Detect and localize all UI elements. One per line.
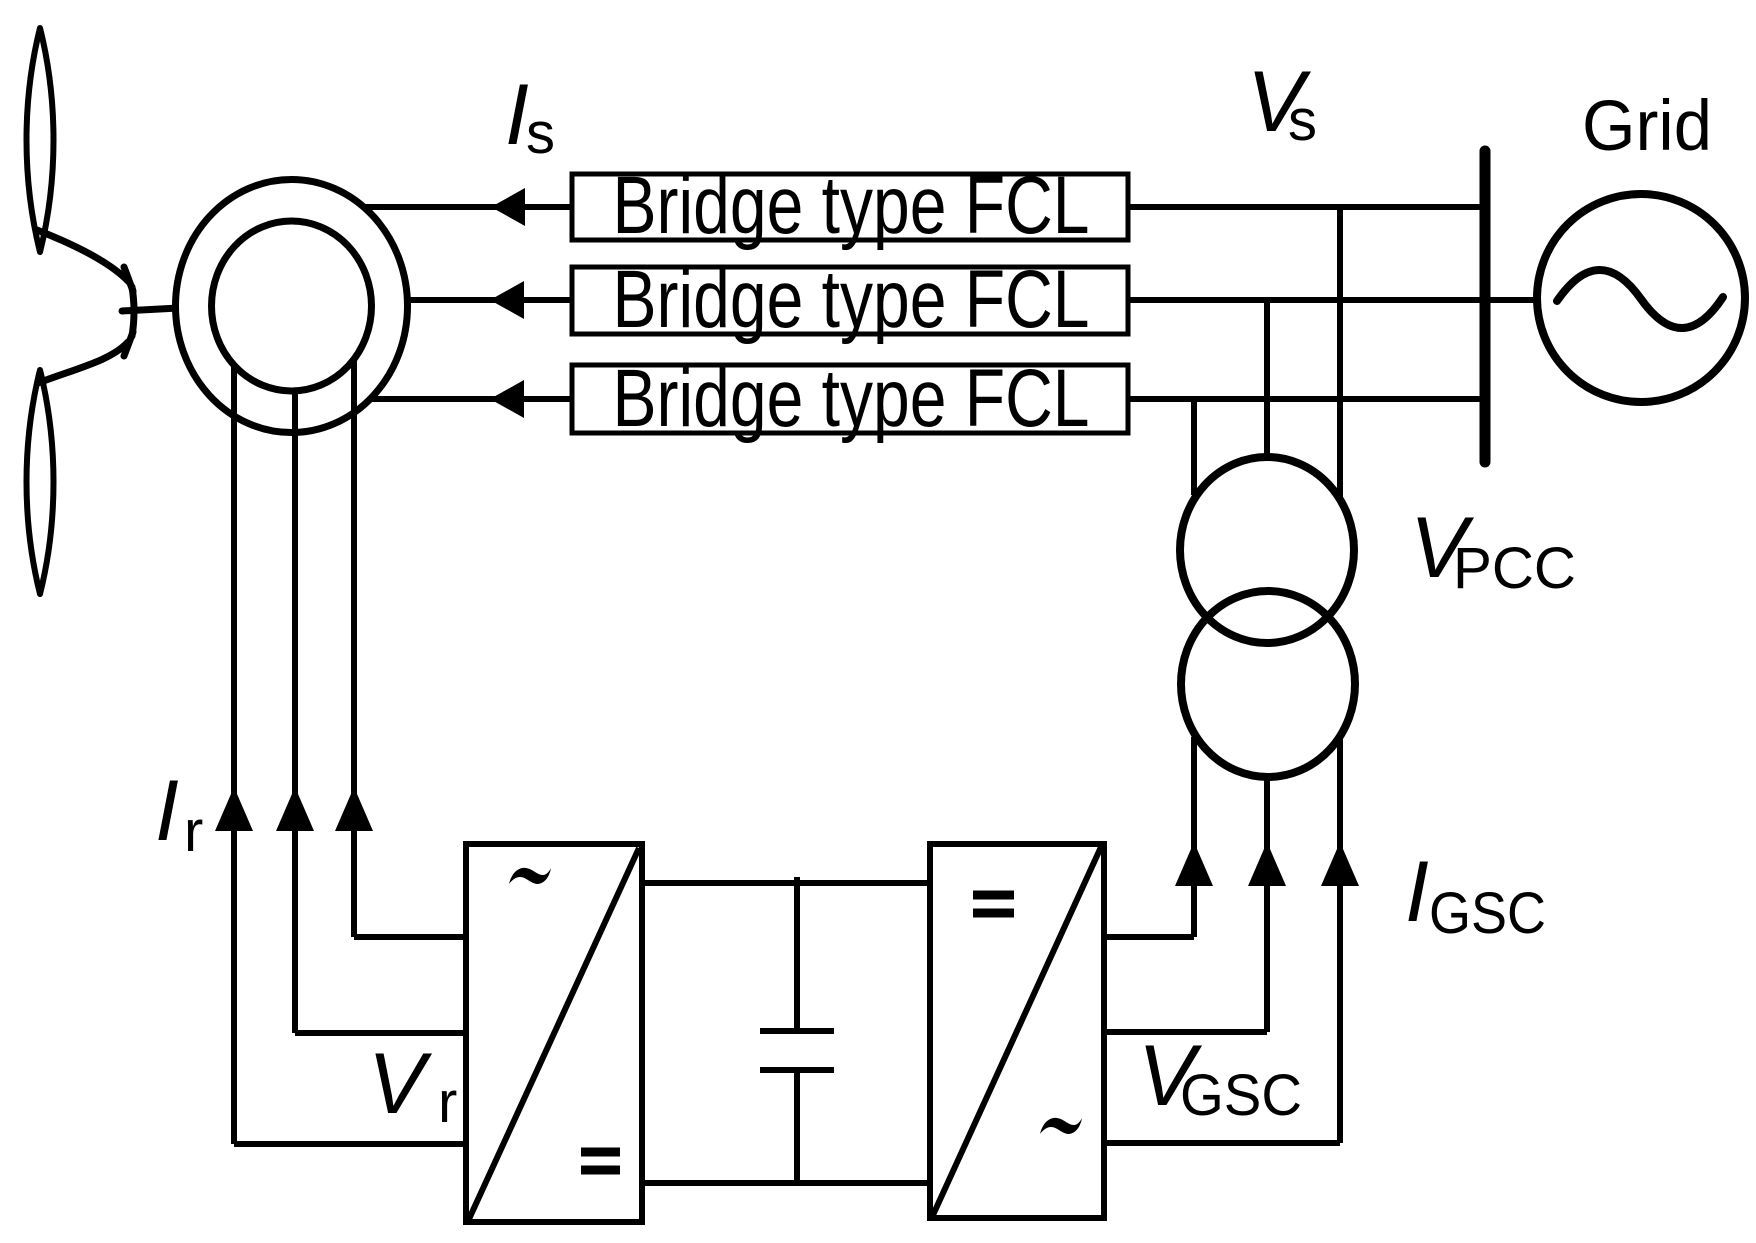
wind turbine blade bottom — [27, 370, 54, 594]
rotor side converter box — [466, 844, 642, 1222]
dc link bottom rail — [642, 1180, 930, 1186]
svg-text:Grid: Grid — [1582, 87, 1712, 166]
svg-text:I: I — [1405, 844, 1429, 940]
stator wire b — [407, 297, 572, 303]
RSC wire b horizontal — [295, 1030, 466, 1036]
GSC dc symbol — [973, 895, 1014, 913]
svg-text:Bridge type FCL: Bridge type FCL — [613, 160, 1090, 251]
vertical line phase c to transformer — [1191, 399, 1197, 495]
vertical line phase a to transformer — [1337, 207, 1343, 497]
GSC ac symbol — [1040, 1118, 1082, 1134]
FCL box 1 — [572, 174, 1128, 240]
transformer primary circle — [1180, 457, 1354, 643]
grid sine wave — [1557, 270, 1723, 328]
generator outer circle — [176, 180, 408, 433]
RSC ac symbol — [509, 868, 551, 884]
stator wire a — [366, 204, 572, 210]
wind turbine hub nose cone lower curve — [38, 342, 128, 383]
generator inner circle — [212, 221, 372, 391]
wind turbine hub nose cone upper curve — [37, 230, 129, 282]
rotor wire b vertical — [292, 391, 298, 1033]
svg-text:Bridge type FCL: Bridge type FCL — [613, 353, 1090, 444]
hub lower joint tick — [124, 332, 133, 356]
arrow Ir b — [276, 787, 314, 831]
rotor wire c vertical — [231, 365, 237, 1144]
GSC wire a horizontal — [1104, 934, 1194, 940]
GSC wire a vertical — [1191, 737, 1197, 937]
arrow Is a — [491, 188, 525, 226]
grid side converter box — [930, 844, 1104, 1218]
arrow Igsc c — [1321, 842, 1359, 886]
arrow Igsc a — [1175, 842, 1213, 886]
FCL box 2 — [572, 267, 1128, 334]
GSC wire c horizontal — [1104, 1140, 1340, 1146]
wire FCL2 to bus to grid — [1128, 297, 1538, 303]
svg-text:Bridge type FCL: Bridge type FCL — [613, 254, 1090, 345]
dc link top rail — [642, 880, 930, 886]
GSC wire b horizontal — [1104, 1029, 1267, 1035]
dc link capacitor — [760, 877, 834, 1183]
arrow Ir a — [335, 787, 373, 831]
vertical line phase b to transformer — [1264, 300, 1270, 459]
wire FCL1 to bus — [1128, 204, 1485, 210]
svg-text:V: V — [368, 1036, 433, 1132]
stator wire c — [371, 396, 572, 402]
wind turbine blade top — [27, 28, 54, 252]
wire FCL3 to bus — [1128, 396, 1485, 402]
svg-text:s: s — [526, 101, 555, 166]
transformer secondary circle — [1181, 591, 1355, 777]
svg-text:r: r — [438, 1070, 457, 1135]
arrow Igsc b — [1248, 842, 1286, 886]
arrow Is b — [490, 281, 524, 319]
GSC wire c vertical — [1337, 739, 1343, 1143]
svg-text:I: I — [155, 763, 179, 859]
bus bar — [1480, 151, 1491, 462]
grid source circle — [1537, 194, 1745, 402]
GSC diagonal — [933, 847, 1101, 1215]
svg-text:r: r — [184, 799, 203, 864]
RSC diagonal — [469, 848, 639, 1219]
FCL box 3 — [572, 365, 1128, 433]
RSC dc symbol — [581, 1152, 620, 1170]
RSC wire a horizontal — [354, 934, 466, 940]
svg-text:GSC: GSC — [1429, 881, 1546, 946]
rotor wire a vertical — [351, 359, 357, 937]
svg-text:s: s — [1288, 88, 1317, 153]
hub upper joint tick — [124, 267, 133, 291]
svg-text:PCC: PCC — [1453, 536, 1576, 601]
RSC wire c horizontal — [234, 1141, 466, 1147]
hub nose arc — [132, 287, 134, 336]
arrow Is c — [490, 380, 524, 418]
svg-text:GSC: GSC — [1180, 1063, 1302, 1128]
arrow Ir c — [215, 787, 253, 831]
GSC wire b vertical — [1264, 777, 1270, 1032]
shaft — [122, 306, 216, 311]
